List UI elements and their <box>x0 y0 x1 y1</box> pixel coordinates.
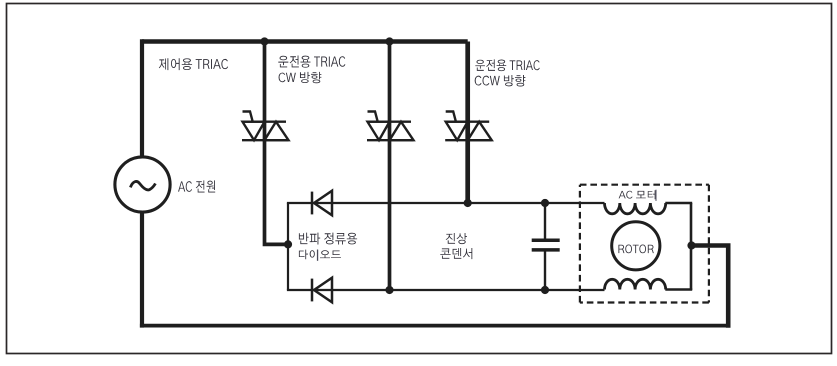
wire bottom row right segment <box>665 288 692 290</box>
label AC motor: AC 모터 <box>619 190 656 199</box>
wire left drop lower (AC source to bottom bus) <box>140 212 144 328</box>
wire bottom row <box>287 289 605 291</box>
wire capacitor bottom lead <box>544 252 546 291</box>
wire capacitor top lead <box>544 203 546 240</box>
TRIAC run CW (운전용) <box>367 112 414 141</box>
text cursor artifact in 다이오드 <box>317 250 318 261</box>
wire top row right segment <box>665 202 692 204</box>
label run TRIAC CW line2: CW 방향 <box>279 72 322 83</box>
node TRIAC3 to top row <box>464 199 472 207</box>
wire motor output <box>691 243 731 248</box>
AC source <box>115 157 170 212</box>
TRIAC control (제어용) <box>242 112 289 141</box>
wire rectifier left rail <box>287 203 289 290</box>
wire right riser <box>726 246 731 328</box>
label rotor: ROTOR <box>618 244 653 253</box>
diode bottom (half-wave rectifier) <box>312 278 332 303</box>
TRIAC run CCW (운전용) <box>445 112 492 141</box>
label diodes line1: 반파 정류용 <box>299 233 357 245</box>
node capacitor bottom <box>541 286 549 294</box>
label AC source: AC 전원 <box>178 180 215 192</box>
diode top (half-wave rectifier) <box>312 191 332 216</box>
label control TRIAC: 제어용 TRIAC <box>159 58 228 70</box>
capacitor (진상 콘덴서) <box>532 240 560 250</box>
node capacitor top <box>541 199 549 207</box>
rotor circle <box>612 222 660 270</box>
node top bus / TRIAC1 <box>260 37 268 45</box>
motor top winding (coil) <box>604 203 665 214</box>
node top bus / TRIAC2 <box>385 37 393 45</box>
label diodes line2: 다이오드 <box>299 250 341 260</box>
motor dashed enclosure <box>580 185 709 303</box>
wire left drop upper (AC source to top bus) <box>140 39 144 157</box>
label run TRIAC CW line1: 운전용 TRIAC <box>278 55 345 67</box>
node TRIAC1 to rectifier rail <box>284 240 292 248</box>
wire TRIAC2 branch vertical <box>388 42 392 291</box>
node motor output junction <box>687 241 695 249</box>
label run TRIAC CCW line1: 운전용 TRIAC <box>475 59 539 71</box>
wire bottom bus <box>140 324 728 328</box>
wire top row (diode/cap row) <box>287 202 605 204</box>
label run TRIAC CCW line2: CCW 방향 <box>475 75 526 87</box>
label capacitor line1: 진상 <box>446 233 467 244</box>
text cursor artifact after AC 모터 <box>655 190 656 201</box>
wire motor right rail <box>690 203 693 290</box>
wire top bus <box>142 39 468 43</box>
node TRIAC2 to bottom row <box>385 286 393 294</box>
motor bottom winding (coil) <box>604 279 665 289</box>
wire TRIAC1 branch vertical <box>265 42 289 245</box>
label capacitor line2: 콘덴서 <box>440 248 472 259</box>
wire TRIAC3 branch vertical <box>465 42 470 204</box>
